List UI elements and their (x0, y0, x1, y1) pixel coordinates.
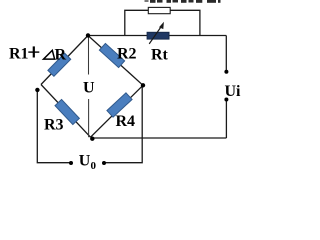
svg-text:R2: R2 (117, 46, 137, 63)
svg-text:U: U (79, 153, 91, 170)
svg-text:U: U (83, 80, 95, 97)
svg-text:Ui: Ui (225, 83, 242, 100)
svg-text:R3: R3 (44, 117, 64, 134)
svg-text:R4: R4 (116, 113, 136, 130)
svg-text:Rt: Rt (151, 47, 169, 64)
svg-text:R: R (55, 47, 67, 64)
svg-text:0: 0 (91, 160, 97, 172)
svg-text:R1: R1 (9, 46, 29, 63)
